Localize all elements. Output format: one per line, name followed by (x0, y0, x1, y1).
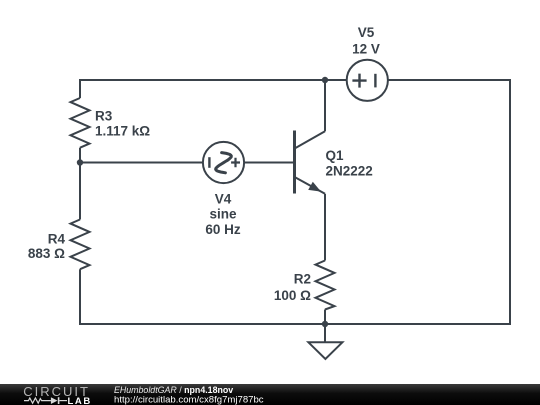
V4 plus sign (231, 158, 240, 167)
svg-text:LAB: LAB (68, 396, 92, 405)
footer title line EHumboldtGAR / npn4.18nov (114, 385, 234, 396)
transistor Q1 emitter diagonal (296, 178, 326, 194)
label V5 value 12 V (352, 41, 380, 56)
ground symbol (308, 342, 342, 359)
svg-text:2N2222: 2N2222 (326, 164, 373, 179)
voltage source V5 circle (347, 60, 388, 101)
svg-text:100 Ω: 100 Ω (274, 288, 311, 303)
svg-text:1.117 kΩ: 1.117 kΩ (95, 123, 150, 138)
svg-text:883 Ω: 883 Ω (28, 246, 65, 261)
svg-text:V5: V5 (358, 25, 375, 40)
svg-text:V4: V4 (215, 191, 232, 206)
transistor Q1 base bar (293, 131, 296, 194)
label R3 value 1.117 kOhm (95, 123, 150, 138)
wire bottom node to ground (324, 324, 326, 342)
node bottom junction dot (322, 321, 328, 327)
transistor Q1 emitter arrow (308, 182, 321, 192)
CircuitLab logo LAB text (68, 396, 92, 405)
label Q1 part 2N2222 (326, 164, 373, 179)
label V4 frequency 60 Hz (205, 222, 241, 237)
wire R2 to bottom node (324, 310, 326, 325)
footer black bar (0, 384, 540, 405)
label V4 type sine (209, 207, 237, 222)
label R4 name (48, 232, 66, 247)
label Q1 name (326, 148, 345, 163)
label V4 name (215, 191, 232, 206)
transistor Q1 collector diagonal (296, 131, 326, 148)
wire node A to Q1 base (80, 162, 295, 164)
svg-text:http://circuitlab.com/cx8fg7mj: http://circuitlab.com/cx8fg7mj787bc (114, 394, 264, 405)
wire Q1 collector to top node (324, 80, 326, 131)
svg-text:sine: sine (209, 207, 237, 222)
V4 sine glyph (216, 153, 232, 173)
V4 minus bar (208, 157, 210, 168)
V5 minus bar (374, 74, 376, 88)
svg-text:R4: R4 (48, 232, 66, 247)
wire R3 to R4 through node A (79, 148, 81, 220)
resistor R4 (71, 220, 90, 270)
voltage source V4 circle (203, 142, 244, 183)
resistor R2 (316, 261, 335, 310)
CircuitLab logo resistor-diode line (24, 397, 67, 404)
resistor R3 (71, 98, 90, 148)
label R2 name (294, 271, 311, 286)
label R4 value 883 Ohm (28, 246, 65, 261)
svg-text:R3: R3 (95, 108, 113, 123)
svg-text:Q1: Q1 (326, 148, 345, 163)
V5 plus sign (352, 74, 366, 88)
svg-text:60 Hz: 60 Hz (205, 222, 241, 237)
node A junction dot (77, 159, 83, 165)
label R2 value 100 Ohm (274, 288, 311, 303)
svg-text:12 V: 12 V (352, 41, 380, 56)
wire outer loop: left top lead, top rail, right rail, bottom rail, left bottom lead (80, 80, 510, 324)
node top junction dot (322, 77, 328, 83)
svg-text:R2: R2 (294, 271, 311, 286)
label V5 name (358, 25, 375, 40)
wire Q1 emitter to R2 (324, 194, 326, 261)
footer url line (114, 394, 264, 405)
label R3 name (95, 108, 113, 123)
CircuitLab logo CIRCUIT text (23, 384, 90, 399)
